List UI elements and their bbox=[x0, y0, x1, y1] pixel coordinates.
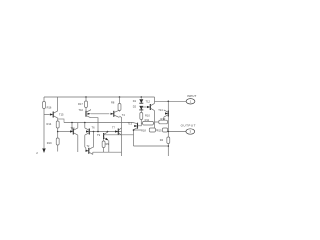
svg-text:2: 2 bbox=[36, 151, 38, 155]
transistor T12 bbox=[147, 103, 155, 110]
junction dot rail-R8 bbox=[119, 96, 121, 98]
svg-text:R4: R4 bbox=[160, 138, 164, 142]
transistor T10 collector diag bbox=[86, 109, 91, 112]
wire T11 collector up bbox=[77, 123, 79, 128]
transistor T9 emitter arrow bbox=[105, 138, 108, 141]
wire bottom rail bbox=[93, 151, 122, 153]
resistor R11h bbox=[143, 121, 154, 125]
wire R17 to T10 bbox=[85, 108, 87, 111]
svg-text:T15: T15 bbox=[59, 113, 64, 117]
wire bus y122 bbox=[64, 122, 133, 124]
wire feedback bus bbox=[134, 145, 169, 147]
wire R10 to R11 bbox=[141, 120, 142, 124]
svg-text:T11: T11 bbox=[70, 126, 75, 130]
label T16 bbox=[92, 125, 96, 129]
wire T16 emitter down bbox=[85, 135, 86, 148]
resistor R17 bbox=[85, 101, 88, 108]
resistor R18 box bbox=[149, 128, 155, 132]
wire T15 emitter to R14 bbox=[57, 118, 59, 121]
wire rail corner to T12 collector bbox=[154, 97, 156, 103]
wire T12 base bbox=[141, 106, 147, 108]
label T11 bbox=[70, 126, 75, 130]
junction dot row bbox=[133, 129, 135, 131]
label R15 bbox=[157, 129, 162, 133]
label R11 bbox=[145, 118, 150, 122]
transistor T9 emitter diag bbox=[104, 138, 108, 140]
wire T16 base right bbox=[90, 131, 122, 133]
label R14 bbox=[47, 122, 52, 126]
junction dot feedback bbox=[168, 145, 170, 147]
wire x93 to T2 col bbox=[93, 132, 95, 148]
wire x57 upper bbox=[57, 97, 59, 111]
resistor R14 bbox=[56, 121, 59, 128]
resistor R4 bbox=[167, 137, 170, 144]
svg-text:R17: R17 bbox=[78, 102, 83, 106]
svg-text:R19: R19 bbox=[47, 141, 52, 145]
wire x86 upper bbox=[85, 97, 87, 101]
wire T2 base stub bbox=[85, 148, 87, 151]
wire T14 bar down bbox=[167, 117, 169, 131]
junction dot bus-T11base bbox=[71, 122, 73, 124]
resistor R15 box bbox=[162, 128, 167, 132]
svg-text:T6: T6 bbox=[92, 125, 96, 129]
resistor R19 bbox=[56, 138, 59, 145]
label R9 bbox=[106, 143, 110, 146]
wire T11 emitter down bbox=[77, 135, 79, 152]
label R12 bbox=[161, 117, 166, 121]
wire T16 collector up bbox=[84, 123, 86, 128]
label R4 bbox=[160, 138, 164, 142]
svg-text:T4: T4 bbox=[122, 113, 126, 117]
wire output bbox=[168, 131, 186, 133]
transistor T16 bbox=[85, 128, 90, 135]
transistor T2 bbox=[86, 147, 93, 154]
transistor T10 emitter diag bbox=[86, 115, 91, 117]
transistor T9 bar bbox=[103, 133, 105, 139]
wire bus hook bbox=[58, 119, 64, 123]
wire output down bbox=[167, 132, 169, 138]
label T13 bbox=[128, 121, 133, 125]
label T14 bbox=[158, 108, 163, 112]
wire R11 right bbox=[153, 122, 154, 124]
junction dot rail-D1 bbox=[141, 96, 143, 98]
wire row feed mid bbox=[156, 129, 158, 131]
pin 2 ground arrow bbox=[42, 148, 45, 153]
label T9 bbox=[97, 133, 101, 137]
wire mid horizontal bbox=[104, 134, 134, 136]
svg-text:R10: R10 bbox=[145, 114, 150, 118]
label R18 bbox=[141, 129, 146, 133]
svg-text:INPUT: INPUT bbox=[187, 94, 196, 98]
diode D1 bbox=[139, 99, 143, 103]
wire T12 emitter down bbox=[154, 111, 156, 130]
svg-text:D1: D1 bbox=[133, 99, 137, 103]
svg-text:OUTPUT: OUTPUT bbox=[181, 123, 196, 127]
svg-text:R15: R15 bbox=[157, 129, 162, 133]
transistor T15 bbox=[50, 111, 58, 118]
resistor R12h bbox=[159, 120, 168, 124]
wire T11 base tie bbox=[71, 123, 73, 132]
label INPUT bbox=[187, 94, 196, 98]
wire R9 down bbox=[103, 148, 105, 153]
transistor T13 base arrow bbox=[134, 125, 137, 127]
wire row to output bbox=[167, 130, 169, 132]
junction dot input bbox=[168, 101, 170, 103]
resistor R16 bbox=[43, 102, 46, 109]
label R10 bbox=[145, 114, 150, 118]
terminal input pin 1 bbox=[186, 99, 195, 104]
transistor T13 collector diag bbox=[133, 123, 137, 124]
svg-text:T13: T13 bbox=[128, 121, 133, 125]
wire T14 emitter stub bbox=[163, 117, 165, 120]
junction dot T2 base bbox=[93, 131, 95, 133]
diode D2 bbox=[139, 106, 143, 110]
wire T4 collector bbox=[118, 111, 120, 112]
wire T9 bar down bbox=[103, 139, 105, 141]
wire R14 to R19 bbox=[57, 128, 59, 138]
label R16 bbox=[47, 105, 52, 109]
wire T15 collector bbox=[57, 110, 59, 112]
junction dot rail-R17 bbox=[85, 96, 87, 98]
wire R4 to node bbox=[167, 144, 169, 157]
wire T2 collector bbox=[92, 146, 95, 148]
wire R19 to bottom rail bbox=[57, 145, 59, 152]
wire D2 to R10 bbox=[140, 110, 142, 113]
label T4 bbox=[122, 113, 126, 117]
svg-text:T7: T7 bbox=[112, 127, 115, 130]
svg-text:R12: R12 bbox=[161, 117, 166, 121]
junction dot T11 base bbox=[57, 131, 59, 133]
label T12 bbox=[146, 100, 151, 104]
wire x133 down bbox=[133, 130, 135, 147]
label R17 bbox=[78, 102, 83, 106]
wire T9 emitter down bbox=[108, 140, 110, 152]
transistor T13 bar bbox=[137, 123, 139, 129]
svg-text:R14: R14 bbox=[47, 122, 52, 126]
wire R12 left bbox=[155, 121, 159, 123]
svg-text:D2: D2 bbox=[133, 105, 137, 109]
svg-text:R18: R18 bbox=[141, 129, 146, 133]
wire T4 emitter down x121 bbox=[119, 116, 121, 156]
transistor T14 bbox=[164, 110, 169, 117]
wire T13 base bbox=[138, 123, 142, 126]
wire row feed left bbox=[134, 129, 142, 131]
wire top supply rail bbox=[44, 96, 155, 98]
svg-text:R11: R11 bbox=[145, 118, 150, 122]
svg-text:R8: R8 bbox=[111, 101, 115, 105]
svg-text:T2: T2 bbox=[87, 145, 90, 148]
label pin 2 bbox=[36, 151, 38, 155]
wire x119 upper bbox=[119, 97, 121, 104]
label R19 bbox=[47, 141, 52, 145]
junction dot T9 collector bbox=[107, 131, 109, 133]
wire D chain top bbox=[140, 97, 142, 99]
label T10 bbox=[79, 108, 84, 112]
wire T7 collector bbox=[121, 127, 123, 129]
junction dot x98 bbox=[97, 131, 99, 133]
transistor T11 bbox=[70, 128, 78, 135]
wire T10 emitter across bbox=[91, 118, 99, 132]
resistor R8 bbox=[118, 104, 121, 111]
wire base bus y113.8 bbox=[91, 113, 110, 115]
wire T9 collector bbox=[107, 131, 109, 134]
junction dot output bbox=[168, 131, 170, 133]
resistor R10 bbox=[140, 113, 143, 120]
label D1 bbox=[133, 99, 137, 103]
wire input net bbox=[155, 100, 187, 102]
svg-text:T10: T10 bbox=[79, 108, 84, 112]
transistor T7 bbox=[115, 128, 122, 135]
resistor R9 bbox=[102, 141, 105, 148]
transistor T4 bbox=[111, 110, 120, 117]
terminal output pin 3 bbox=[186, 129, 195, 134]
svg-text:R16: R16 bbox=[47, 105, 52, 109]
label T7 bbox=[112, 127, 115, 130]
label OUTPUT bbox=[181, 123, 196, 127]
label R8 bbox=[111, 101, 115, 105]
label T15 bbox=[59, 113, 64, 117]
junction dot pair collector bbox=[84, 122, 86, 124]
label D2 bbox=[133, 105, 137, 109]
label T2 bbox=[87, 145, 90, 148]
transistor T10 arrow bbox=[88, 113, 91, 115]
svg-text:T12: T12 bbox=[146, 100, 151, 104]
transistor T10 bar bbox=[85, 111, 87, 117]
wire input down to T14 bbox=[167, 101, 169, 110]
svg-text:T9: T9 bbox=[97, 133, 101, 137]
wire left rail x44 bbox=[43, 97, 45, 148]
wire T15 base bbox=[44, 114, 50, 116]
transistor T13 emitter diag bbox=[134, 128, 138, 130]
transistor T9 collector diag bbox=[104, 132, 108, 134]
wire T2 emitter bbox=[92, 152, 94, 154]
wire T11 base bbox=[58, 131, 71, 133]
svg-text:T14: T14 bbox=[158, 108, 163, 112]
